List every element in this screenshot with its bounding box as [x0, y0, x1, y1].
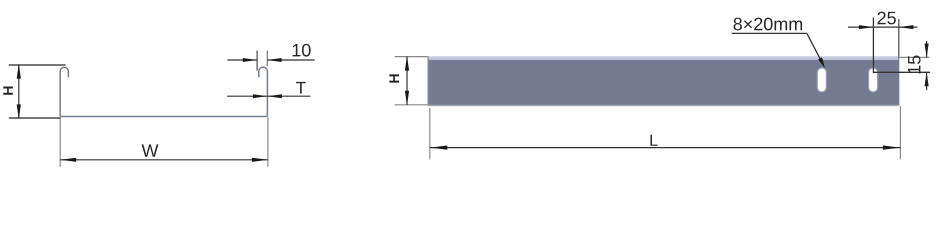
10 dimension line + arrows [227, 58, 314, 62]
H dimension line + arrows [17, 64, 21, 120]
slot 1 (8x20mm) [817, 68, 826, 92]
T label [296, 82, 306, 94]
L dimension line + arrows [430, 146, 901, 150]
L label [650, 135, 657, 146]
plate right edge [898, 57, 900, 106]
25 label [877, 12, 895, 25]
channel profile (bottom + left wall with curl + right wall with curl) [60, 67, 267, 116]
W label [142, 144, 159, 156]
10 dimension extension lines [256, 51, 258, 71]
plate left edge [427, 56, 429, 105]
W dimension extension lines [60, 117, 268, 167]
T dimension line + converging arrows [227, 94, 311, 98]
H label (right view, rotated) [389, 74, 399, 82]
10 label [293, 44, 311, 57]
25 dimension line + arrows [848, 25, 918, 29]
15 dimension top extension (plate top extended) [899, 56, 930, 58]
W dimension line + arrows [60, 158, 268, 162]
H dimension (right view) extension lines [395, 57, 429, 105]
15 label (rotated) [908, 56, 921, 74]
8x20mm leader line [807, 33, 824, 65]
15 dimension line + arrows [925, 41, 929, 90]
8x20mm leader arrowhead [818, 57, 825, 68]
slot 2 (8x20mm) [869, 68, 878, 92]
H dimension line + arrows (right view) [405, 56, 409, 106]
25 dimension right extension [898, 19, 900, 57]
L dimension extension lines [430, 106, 901, 159]
8x20mm leader underline [732, 32, 807, 34]
8x20mm label [734, 18, 803, 31]
H label (left view, rotated) [3, 86, 13, 94]
H dimension (left view) extension lines [9, 65, 66, 118]
25 dimension left extension (elbow through slot 2 to 15-dim) [873, 18, 930, 73]
